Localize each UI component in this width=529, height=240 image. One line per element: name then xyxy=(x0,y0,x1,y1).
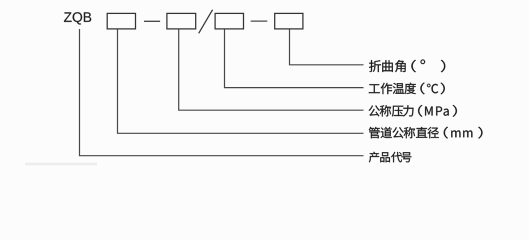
dash between box3 and box4 xyxy=(251,20,268,22)
box 1 (pipe diameter field) xyxy=(107,13,135,29)
connector box4 → 折曲角 xyxy=(290,29,364,65)
box 4 (bend-angle field) xyxy=(275,13,303,29)
label 折曲角(°) xyxy=(369,60,445,73)
label 产品代号 xyxy=(369,152,412,163)
label 管道公称直径(mm) xyxy=(369,127,483,139)
text ZQB (product prefix) xyxy=(64,12,91,24)
connector box1 → 管道公称直径 xyxy=(118,29,364,133)
faint scan smudge bottom-left xyxy=(25,163,97,165)
box 2 (pressure field) xyxy=(167,13,196,29)
label 公称压力(MPa) xyxy=(369,105,457,117)
connector box3 → 工作温度 xyxy=(225,29,364,88)
dash between box1 and box2 xyxy=(144,20,160,22)
slash between box2 and box3 xyxy=(199,10,213,34)
connector ZQB → 产品代号 xyxy=(80,29,364,156)
connector box2 → 公称压力 xyxy=(179,29,364,110)
box 3 (temperature field) xyxy=(215,13,243,29)
label 工作温度(℃) xyxy=(369,83,445,95)
